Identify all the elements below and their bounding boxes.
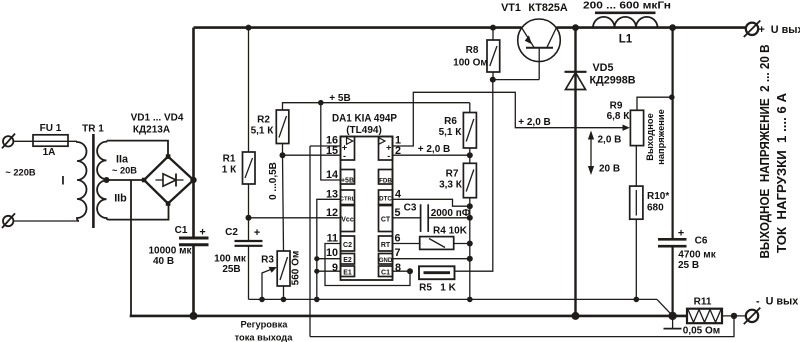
svg-text:-: - (387, 151, 390, 161)
wire: +5V reference from R2 top to R6 (283, 103, 470, 110)
ground rail bottom (130, 315, 687, 318)
node: R9 top on output column (669, 94, 675, 100)
wire: rail to R8 (492, 28, 494, 40)
svg-text:+: + (199, 227, 205, 239)
IC pin box E2 (pin 10) (341, 254, 355, 265)
wire: rail to R1 (248, 28, 250, 152)
svg-text:7: 7 (395, 247, 401, 259)
svg-text:R3: R3 (261, 255, 274, 266)
node: sense tap at R11 right (731, 313, 737, 319)
wire: R1 bottom to Vcc node (248, 184, 250, 218)
wire: pin15 node down to R3 (283, 155, 284, 251)
svg-text:+ 2,0 В: + 2,0 В (418, 144, 451, 155)
wire: base node to VT1 base (493, 79, 539, 81)
node: VD5 top junction (572, 24, 579, 31)
transformer TR1 secondary IIa (97, 141, 107, 180)
IC pin box DTC (pin 4) (379, 190, 393, 205)
resistor R10 (630, 186, 643, 219)
IC pin box FDB (pin 3) (379, 170, 393, 185)
wire: C6 bottom to ground rail (671, 246, 673, 316)
svg-text:C2: C2 (343, 242, 352, 249)
svg-text:+ 5В: + 5В (329, 93, 350, 104)
wire: R6 bottom to divider node (469, 148, 471, 155)
IC pin box C2 (pin 11) (341, 236, 355, 251)
capacitor C1 (179, 238, 209, 245)
svg-text:+ U вых: + U вых (759, 24, 800, 36)
wire: pin 1 up and over to voltage set (393, 92, 626, 146)
node: +5B tap junction (318, 100, 324, 106)
wire: R2 bottom to pin15 node (282, 144, 284, 156)
wire: R8 bottom to base node (492, 72, 494, 80)
svg-text:R7: R7 (446, 168, 459, 179)
wire: C1 bottom to ground rail (192, 245, 195, 316)
resistor R8 (487, 40, 500, 72)
svg-text:-: - (343, 151, 346, 161)
wire: +5V ref down to R6 (469, 103, 471, 113)
node: gnd column on signal ground wire (467, 297, 473, 303)
capacitor C3 (421, 204, 429, 232)
wire: pin 15 feedback wire (283, 154, 341, 156)
node: pin 8 / R5 junction (407, 268, 413, 274)
wire: pin 13 to signal ground drop (317, 199, 341, 299)
wire: +V vertical from top rail to bridge and C1 (192, 28, 195, 238)
svg-text:5,1 К: 5,1 К (439, 127, 463, 138)
node: pin 9 junction on ground drop (314, 269, 319, 274)
svg-text:CTRL: CTRL (340, 196, 356, 202)
node: C3 on gnd column (467, 215, 473, 221)
svg-text:VT1: VT1 (501, 2, 521, 14)
transistor VT1 KT825A (518, 19, 561, 80)
resistor R7 (463, 163, 476, 197)
resistor R6 (463, 113, 476, 149)
svg-text:1A: 1A (43, 147, 56, 158)
wire: R3 wiper arrow (262, 267, 277, 300)
svg-text:КД213А: КД213А (133, 125, 170, 136)
wire: C2 bottom to signal ground wire (248, 246, 250, 300)
svg-text:- U вых: - U вых (756, 295, 798, 307)
svg-text:TR 1: TR 1 (82, 124, 104, 135)
IC comparator box right (pins 1,2) (379, 137, 393, 161)
wire: pin 7 GND to gnd column (393, 258, 470, 260)
wire: pin 6 RT to R4 (393, 243, 420, 245)
node: VD5 on ground rail (572, 312, 580, 320)
svg-text:C6: C6 (695, 236, 708, 247)
IC pin box Vcc (pin 12) (341, 206, 355, 232)
svg-text:1 К: 1 К (222, 165, 237, 176)
svg-text:6: 6 (395, 232, 401, 244)
svg-text:R4 10K: R4 10K (433, 226, 468, 237)
IC comparator box left (pins 16,15) (341, 137, 355, 161)
wire: IIb bottom to bridge bottom corner (109, 204, 169, 220)
svg-text:R2: R2 (257, 115, 270, 126)
svg-text:R8: R8 (466, 45, 479, 56)
svg-text:GND: GND (379, 258, 393, 264)
capacitor C6 (658, 239, 687, 246)
svg-text:R10*: R10* (647, 191, 669, 202)
svg-text:L1: L1 (619, 34, 633, 46)
svg-text:R6: R6 (444, 116, 457, 127)
wire: +5B drop to pin 14 (321, 103, 341, 180)
svg-text:0 ...0,5В: 0 ...0,5В (268, 162, 279, 200)
svg-text:+ 2,0 В: + 2,0 В (518, 117, 551, 128)
svg-text:~ 20В: ~ 20В (112, 166, 137, 176)
node: R1 tap on +20V rail (246, 25, 252, 31)
wire: +20V rail top, left segment to VT1 emitter (194, 26, 522, 29)
wire: R4 right to gnd column (454, 243, 470, 245)
svg-text:(TL494): (TL494) (346, 125, 382, 136)
svg-text:+: + (678, 227, 684, 239)
svg-text:R11: R11 (694, 296, 712, 307)
wire: R5 right up to VT1 base feed (455, 80, 493, 272)
wire: pin 11 collector C2 loop to pin 8 (325, 244, 410, 286)
svg-text:5,1 К: 5,1 К (251, 126, 275, 137)
IC pin box CT (pin 5) (379, 206, 393, 232)
svg-text:25 В: 25 В (678, 260, 699, 271)
svg-text:R9: R9 (610, 100, 623, 111)
svg-text:4: 4 (395, 188, 401, 200)
transformer TR1 primary winding I (77, 141, 87, 221)
resistor R4 (420, 237, 454, 250)
diode symbol inside bridge (156, 174, 184, 187)
wire: R9 bottom to R10 (635, 146, 637, 187)
node: R3 bottom on ground wire (281, 297, 287, 303)
wire: pin 2 to R6/R7 divider (393, 154, 470, 156)
node: R4 on gnd column (467, 241, 473, 247)
svg-text:4700 мк: 4700 мк (678, 250, 716, 261)
wire: R10 bottom to signal ground (635, 219, 637, 299)
ground stub below rail (664, 316, 682, 329)
svg-text:Регуровка: Регуровка (241, 319, 289, 329)
rectifier bridge VD1...VD4 diamond (142, 154, 194, 206)
op-amp/PWM IC DA1 KIA494P outer box (341, 137, 393, 281)
wire: current sense vertical x310 down to bottom sense wire (309, 146, 311, 337)
wire: C3 right to gnd column (428, 217, 470, 219)
svg-text:КТ825А: КТ825А (528, 2, 567, 14)
node: pin 7 on gnd column (467, 256, 473, 262)
node: secondary centre tap (104, 177, 110, 183)
node: R3 wiper on ground wire (259, 297, 265, 303)
svg-text:+5B: +5B (341, 177, 354, 184)
node: R8 / R5 / base junction (490, 77, 496, 83)
transformer TR1 secondary IIb (97, 180, 109, 219)
IC pin box RT (pin 6) (379, 236, 393, 251)
fuse FU1 (33, 135, 68, 146)
node: output column on +V rail (669, 24, 676, 31)
svg-text:FU 1: FU 1 (40, 123, 62, 134)
svg-text:напряжение: напряжение (656, 109, 666, 165)
transformer TR1 core (92, 134, 95, 228)
IC pin box C1 (pin 8) (379, 266, 393, 277)
terminal: mains input bottom (2, 213, 15, 228)
wire: +20V rail right segment from VT1 collector (556, 26, 745, 29)
wire: divider node to R7 (469, 155, 471, 163)
wire: bottom input to primary (13, 220, 79, 222)
potentiometer R3 (277, 251, 290, 286)
svg-text:9: 9 (332, 262, 338, 274)
svg-text:10: 10 (326, 247, 338, 259)
svg-text:3,3 К: 3,3 К (439, 180, 463, 191)
IC pin box E1 (pin 9) (341, 266, 355, 277)
node: R10 on signal ground wire (634, 297, 640, 303)
wire: R7 bottom to gnd column (469, 198, 471, 300)
wire: signal ground horizontal y299 (249, 298, 658, 300)
node: R6/R7/pin2 divider (467, 152, 473, 158)
wire: IIa top to bridge top corner (107, 141, 168, 157)
capacitor C2 (235, 241, 263, 246)
diode VD5 (565, 72, 587, 90)
svg-text:+: + (254, 227, 260, 239)
svg-text:R1: R1 (223, 154, 236, 165)
wire: R3 bottom to signal ground (283, 286, 285, 299)
svg-text:Выходное: Выходное (645, 113, 655, 161)
wire: output + vertical column (671, 28, 673, 240)
resistor R2 (276, 110, 289, 144)
IC pin box +5B (pin 14) (341, 170, 355, 185)
svg-text:IIa: IIa (116, 154, 129, 166)
svg-text:40 В: 40 В (153, 256, 174, 267)
svg-text:25В: 25В (222, 264, 240, 275)
wire: pin 8 (393, 270, 411, 272)
wire: pin 16 to current sense line (310, 145, 341, 147)
svg-text:Vcc: Vcc (341, 216, 354, 223)
shunt resistor R11 (687, 309, 722, 324)
wire: pin 9 (317, 270, 341, 272)
svg-text:FDB: FDB (379, 177, 392, 184)
svg-text:8: 8 (395, 262, 401, 274)
node: bridge right corner on +V line (190, 177, 196, 183)
svg-text:ВЫХОДНОЕ НАПРЯЖЕНИЕ 2 ... 20: ВЫХОДНОЕ НАПРЯЖЕНИЕ 2 ... 20 В (757, 45, 772, 259)
svg-text:E2: E2 (343, 257, 352, 264)
svg-text:~ 220В: ~ 220В (5, 167, 36, 177)
svg-text:RT: RT (381, 242, 391, 249)
svg-text:IIb: IIb (114, 192, 127, 204)
terminal: -U out (744, 308, 761, 325)
svg-text:2,0 В: 2,0 В (598, 135, 622, 146)
svg-text:13: 13 (326, 188, 338, 200)
potentiometer R9 (630, 110, 643, 145)
wire: VD5 vertical line (574, 28, 576, 316)
svg-text:DA1 KIA 494P: DA1 KIA 494P (332, 113, 397, 125)
svg-text:C3: C3 (404, 202, 417, 213)
svg-text:I: I (61, 176, 64, 188)
wire: centre tap branch down to ground rail (130, 180, 132, 316)
wire: R11 to -U terminal (722, 315, 746, 317)
svg-text:14: 14 (326, 169, 338, 181)
svg-text:560 Ом: 560 Ом (291, 251, 302, 286)
svg-text:680: 680 (647, 202, 664, 213)
svg-text:КД2998В: КД2998В (589, 75, 635, 87)
svg-text:11: 11 (327, 232, 338, 244)
svg-text:E1: E1 (343, 270, 352, 277)
wire: pin 10 (317, 258, 341, 260)
node: pin15 / R2 / R3 junction (280, 152, 286, 158)
arrowhead: wiper into R9 (623, 125, 630, 131)
wire: pin 5 CT to C3 (393, 217, 421, 219)
terminal: +U out (744, 21, 761, 38)
svg-text:0,05 Ом: 0,05 Ом (683, 326, 720, 337)
wire: top input to fuse to primary (13, 140, 77, 142)
node: pin 10 junction on ground drop (314, 256, 319, 261)
svg-text:VD1 ... VD4: VD1 ... VD4 (131, 113, 184, 124)
inductor L1 (593, 13, 658, 28)
node: C1 on ground rail (190, 312, 198, 320)
svg-text:20 В: 20 В (599, 163, 620, 174)
node: ground drop on signal ground wire (314, 297, 320, 303)
IC pin box GND (pin 7) (379, 254, 393, 265)
wire: current sense return to pin 16 line (310, 316, 734, 337)
terminal: mains input top (2, 134, 15, 149)
resistor R1 (243, 152, 256, 184)
svg-text:C2: C2 (225, 227, 238, 238)
node: main ground junction at C6 (668, 312, 676, 320)
wire: Vcc pin12 wire (249, 217, 341, 219)
svg-text:VD5: VD5 (592, 62, 613, 74)
svg-text:100 Ом: 100 Ом (453, 57, 488, 68)
wire: signal ground diagonal to power ground (657, 299, 673, 315)
svg-text:CT: CT (381, 216, 391, 223)
wire: centre tap to bridge left corner (107, 179, 145, 181)
svg-text:6,8 К: 6,8 К (607, 111, 631, 122)
svg-text:R5 1 K: R5 1 K (419, 282, 456, 293)
svg-text:ТОК НАГРУЗКИ 1 .... 6 А: ТОК НАГРУЗКИ 1 .... 6 А (774, 93, 789, 253)
wire: pin 4 DTC jog (393, 199, 470, 206)
svg-text:12: 12 (326, 207, 338, 219)
node: Vcc / C2 junction (246, 215, 252, 221)
node: pin4 junction (467, 203, 473, 209)
node: R8 on +20V rail (490, 25, 496, 31)
resistor R5 (419, 266, 455, 279)
svg-text:DTC: DTC (379, 195, 392, 202)
wire: Vcc node down to C2 (248, 218, 250, 241)
range arrow 2..20V (588, 131, 594, 176)
svg-text:тока выхода: тока выхода (235, 333, 294, 342)
svg-text:C1: C1 (381, 270, 390, 277)
wire: R9 top to output column (637, 97, 672, 110)
svg-text:C1: C1 (175, 225, 188, 236)
svg-text:200 ... 600 мкГн: 200 ... 600 мкГн (583, 1, 671, 12)
IC pin box CTRL (pin 13) (340, 190, 356, 205)
